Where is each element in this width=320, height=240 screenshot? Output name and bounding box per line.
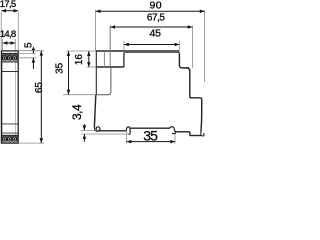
svg-text:17,5: 17,5 — [0, 0, 16, 10]
svg-text:5: 5 — [24, 42, 35, 48]
body right edge with corner — [187, 68, 190, 98]
front view body outline — [1, 51, 18, 143]
top screw slots — [4, 57, 15, 58]
svg-text:14,8: 14,8 — [0, 29, 16, 40]
dimension 45 — [124, 41, 179, 51]
svg-text:3,4: 3,4 — [70, 104, 84, 120]
dimension 14.8 (inner width) — [3, 39, 16, 51]
bottom terminal screws — [2, 141, 17, 142]
dimension 67.5 — [110, 26, 192, 68]
dimension 16 — [87, 66, 97, 68]
left rail lip — [126, 127, 130, 134]
right rail lip — [170, 127, 175, 134]
svg-text:35: 35 — [143, 127, 158, 143]
clip left drop — [189, 132, 191, 136]
clip bottom foot curl — [201, 132, 204, 137]
dimension 35 (bottom tab) — [127, 132, 175, 144]
clip right edge with slant — [200, 100, 203, 132]
bottom edge right of lip — [175, 131, 189, 133]
svg-text:45: 45 — [150, 28, 162, 40]
left channel floor — [96, 66, 124, 68]
lower cover seam line — [1, 123, 18, 125]
front view inner side wall right — [14, 51, 16, 143]
left lower slanted edge — [94, 95, 95, 127]
left foot curl — [94, 127, 100, 132]
strip left wall — [123, 53, 125, 67]
right channel floor with fillet — [179, 53, 189, 68]
rail strip underside (double line) — [124, 52, 179, 54]
svg-text:65: 65 — [34, 82, 45, 93]
face line between lips — [130, 127, 170, 129]
bottom edge left section — [99, 130, 127, 132]
clip top step — [190, 98, 202, 100]
side view outer left edge — [95, 51, 97, 95]
internal step down to base — [96, 67, 111, 95]
svg-text:67,5: 67,5 — [147, 13, 166, 24]
bottom screw slots — [4, 139, 15, 140]
svg-text:90: 90 — [149, 0, 162, 11]
dimension 65 (module height) — [19, 51, 44, 143]
upper cover seam line — [1, 71, 18, 73]
dimension 35 (depth, left side) — [63, 51, 96, 95]
inner wall line left — [103, 51, 105, 67]
dimension 3.4 — [81, 130, 129, 134]
top terminal screws — [2, 60, 17, 61]
svg-text:35: 35 — [55, 62, 66, 73]
top terminal block — [2, 53, 18, 62]
dimension 90 (overall) — [96, 10, 205, 82]
svg-text:16: 16 — [74, 54, 85, 65]
front view inner side wall left — [2, 51, 4, 143]
side view top back edge — [96, 50, 180, 52]
lower seam line 2 — [1, 132, 18, 134]
dimension 5 (terminal depth) — [18, 53, 36, 57]
bottom terminal block — [2, 135, 18, 143]
clip bottom edge — [190, 135, 201, 137]
dimension 17.5 (front width) — [1, 12, 18, 51]
